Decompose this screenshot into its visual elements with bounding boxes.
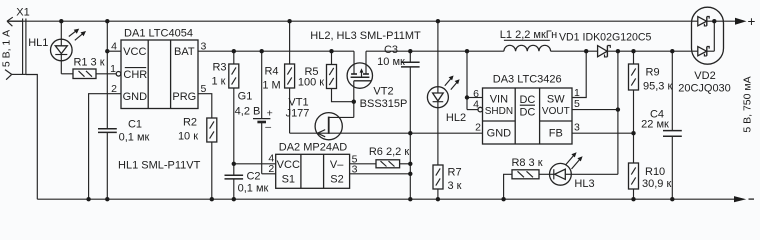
DA3 pin numbers (473, 87, 580, 134)
svg-text:PRG: PRG (172, 91, 196, 103)
wire: DA2 VCC pin to C2 node (234, 163, 276, 165)
svg-text:HL1: HL1 (28, 37, 48, 49)
wire: R6 to ground vertical (400, 163, 411, 165)
DA2 pin numbers (268, 153, 357, 176)
wire: to DA3 SHDN pin (467, 109, 478, 111)
junction dots: middle nodes (232, 95, 636, 176)
svg-text:VOUT: VOUT (542, 106, 570, 117)
svg-text:5: 5 (574, 98, 580, 110)
HL3 emission arrows (566, 152, 583, 169)
svg-text:3: 3 (574, 121, 580, 133)
wire: VIN/SHDN feed vertical (466, 51, 468, 109)
svg-text:VD1 IDK02G120C5: VD1 IDK02G120C5 (559, 31, 652, 43)
wire: BAT line after VT2 to L1 (366, 50, 504, 52)
svg-text:BSS315P: BSS315P (360, 98, 408, 110)
wire: R5 bottom jog to VT2 gate node (332, 89, 354, 102)
svg-text:HL3: HL3 (574, 178, 594, 190)
resistor R7 (433, 165, 462, 192)
resistor R8 (511, 157, 542, 179)
DA1 pin numbers (110, 41, 206, 96)
SHDN inversion circle (478, 107, 483, 112)
wire: R7 to ground rail (437, 189, 439, 199)
svg-text:2: 2 (111, 83, 117, 95)
wire: X1 lower pin to bottom rail (26, 75, 37, 200)
LED HL1 (28, 21, 72, 74)
svg-text:1: 1 (110, 63, 116, 75)
wire: DA2 V- pin to R6 (350, 163, 376, 165)
wire: DA3 VOUT pin to output vertical (572, 109, 618, 111)
svg-text:22 мк: 22 мк (641, 118, 669, 130)
CHR inversion circle (116, 72, 121, 77)
resistor R10 (629, 163, 672, 190)
svg-text:R2: R2 (183, 117, 197, 129)
wire: ground vertical (C3 / R6 / DA2 S2 / rail) (409, 67, 411, 199)
resistor R4 (262, 21, 294, 91)
svg-text:V–: V– (330, 159, 344, 171)
wire: G1 minus to DA2 S1 pin (262, 173, 276, 175)
svg-text:100 к: 100 к (298, 76, 324, 88)
wire: +5V top rail (7, 20, 698, 22)
svg-text:X1: X1 (16, 7, 29, 19)
svg-text:DA1 LTC4054: DA1 LTC4054 (124, 28, 193, 40)
capacitor C1 (98, 119, 150, 200)
wire: R8 to ground rail (504, 174, 512, 199)
wire: VCC vertical from +5V rail (106, 21, 108, 129)
wire: to DA1 VCC pin (107, 50, 121, 52)
capacitor C2 (225, 171, 269, 200)
transistor VT1 J177 (286, 96, 354, 140)
wire: R10 to ground rail (633, 189, 635, 199)
wire: HL1 to R1 (61, 73, 73, 75)
svg-text:4: 4 (111, 41, 117, 53)
svg-text:HL1 SML-P11VT: HL1 SML-P11VT (118, 159, 201, 171)
svg-text:SW: SW (547, 94, 565, 106)
svg-text:C2: C2 (246, 171, 260, 183)
wire: VD2 to output plus (712, 20, 735, 22)
X1 pin 1 arrow (7, 17, 23, 26)
svg-text:1 М: 1 М (262, 80, 280, 92)
svg-text:HL2: HL2 (446, 112, 466, 124)
svg-text:S2: S2 (330, 174, 343, 186)
svg-text:R1 3 к: R1 3 к (73, 57, 104, 69)
svg-text:5 В, 750 мА: 5 В, 750 мА (742, 76, 754, 132)
svg-text:3 к: 3 к (448, 180, 462, 192)
svg-text:30,9 к: 30,9 к (642, 178, 671, 190)
resistor R6 (369, 146, 409, 168)
svg-text:R6 2,2 к: R6 2,2 к (369, 146, 409, 158)
wire: R3 down to C2 node (233, 88, 235, 175)
IC DA2 MP24AD (276, 141, 350, 188)
svg-text:20CJQ030: 20CJQ030 (678, 82, 731, 94)
svg-text:C3: C3 (384, 44, 398, 56)
svg-text:DC: DC (519, 106, 535, 118)
svg-text:2: 2 (268, 163, 274, 175)
junction dots: BAT / boost line (232, 49, 675, 53)
HL2 emission arrows (445, 76, 460, 90)
LED HL3 (550, 163, 595, 189)
label 5 В, 1 А (input rating) (1, 30, 13, 67)
wire: L1 to VD1 (551, 50, 598, 52)
svg-text:J177: J177 (286, 107, 310, 119)
wire: to DA3 VIN pin (467, 97, 483, 99)
svg-text:5 В, 1 А: 5 В, 1 А (1, 30, 13, 67)
svg-text:GND: GND (123, 91, 148, 103)
svg-text:VCC: VCC (277, 159, 300, 171)
junction dots: ground rail (86, 197, 674, 201)
svg-text:VIN: VIN (490, 94, 508, 106)
resistor R5 (298, 51, 337, 88)
wire: VD1 cathode to VD2 (607, 50, 697, 52)
inductor L1 (500, 29, 557, 51)
junction: VCC node (105, 49, 109, 53)
wire: VT1 gate / source line to DA3 GND (290, 132, 483, 134)
X1 pin 2 arrow (5, 70, 26, 80)
svg-text:10 к: 10 к (178, 131, 198, 143)
svg-text:0,1 мк: 0,1 мк (238, 183, 269, 195)
wire: R1 to CHR pin (96, 73, 116, 75)
svg-text:HL2, HL3 SML-P11MT: HL2, HL3 SML-P11MT (310, 30, 421, 42)
resistor R9 (629, 51, 673, 92)
svg-text:1 к: 1 к (212, 76, 226, 88)
svg-text:R7: R7 (448, 167, 462, 179)
svg-text:+: + (267, 108, 273, 120)
svg-text:4,2 В: 4,2 В (235, 106, 261, 118)
svg-text:SHDN: SHDN (485, 106, 513, 117)
wire: DA1 PRG to R2 (198, 94, 212, 118)
svg-text:+: + (748, 14, 756, 29)
HL1 emission arrows (69, 29, 86, 41)
wire: BAT line (battery plus net) (198, 50, 354, 52)
op-amp / IC DA1 LTC4054 (121, 28, 198, 109)
wire: R9 to R10 (FB tap) (633, 90, 635, 163)
junction dots: +5V rail (59, 19, 716, 23)
wire: R4 to VT1 gate line (289, 88, 291, 133)
svg-text:2: 2 (475, 121, 481, 133)
wire: DA2 S2 pin to ground vertical (350, 173, 411, 175)
IC DA3 LTC3426 (483, 73, 573, 144)
wire: DA1 GND pin to ground (89, 94, 121, 200)
svg-text:–: – (265, 121, 271, 133)
wire: DA3 FB pin to divider tap (572, 132, 634, 134)
diode assembly VD2 20CJQ030 (678, 7, 731, 94)
svg-text:VCC: VCC (123, 46, 146, 58)
svg-text:R8 3 к: R8 3 к (511, 157, 542, 169)
diode VD1 (Schottky) (559, 31, 652, 57)
svg-text:VT2: VT2 (373, 86, 393, 98)
resistor R1 (73, 57, 105, 79)
wire: HL3 to output vertical (571, 173, 618, 175)
svg-text:95,3 к: 95,3 к (643, 81, 672, 93)
svg-text:BAT: BAT (174, 46, 195, 58)
svg-text:0,1 мк: 0,1 мк (119, 132, 150, 144)
svg-text:R9: R9 (646, 67, 660, 79)
wire: R8 to HL3 (539, 173, 554, 175)
svg-text:S1: S1 (282, 174, 295, 186)
svg-text:R3: R3 (212, 62, 226, 74)
transistor VT2 BSS315P (347, 51, 407, 110)
resistor R3 (212, 51, 239, 88)
svg-text:CHR: CHR (123, 69, 147, 81)
output arrow minus (734, 196, 754, 202)
svg-text:R4: R4 (264, 66, 278, 78)
svg-text:GND: GND (487, 128, 512, 140)
svg-text:G1: G1 (238, 91, 253, 103)
wire: output vertical (VD1 cathode to HL3) (617, 51, 619, 174)
svg-text:10 мк: 10 мк (377, 56, 405, 68)
svg-text:L1 2,2 мкГн: L1 2,2 мкГн (500, 29, 557, 41)
svg-text:FB: FB (549, 128, 563, 140)
LED HL2 (427, 21, 466, 165)
battery G1 (235, 51, 273, 174)
svg-text:DA3 LTC3426: DA3 LTC3426 (493, 73, 562, 85)
svg-text:VD2: VD2 (694, 70, 715, 82)
output arrow plus (735, 14, 756, 29)
capacitor C4 (641, 51, 682, 199)
svg-text:DC: DC (519, 94, 535, 106)
wire: DA3 SW pin up to inductor node (572, 51, 586, 97)
wire: R2 to ground rail (211, 142, 213, 199)
resistor R2 (178, 117, 217, 143)
connector X1 (16, 7, 29, 75)
wire: VT2 gate vertical (353, 81, 355, 118)
wire: bottom ground rail (37, 198, 735, 200)
svg-text:DA2 MP24AD: DA2 MP24AD (279, 141, 348, 153)
svg-text:C1: C1 (128, 119, 142, 131)
svg-text:R10: R10 (645, 166, 665, 178)
capacitor C3 (377, 44, 419, 68)
